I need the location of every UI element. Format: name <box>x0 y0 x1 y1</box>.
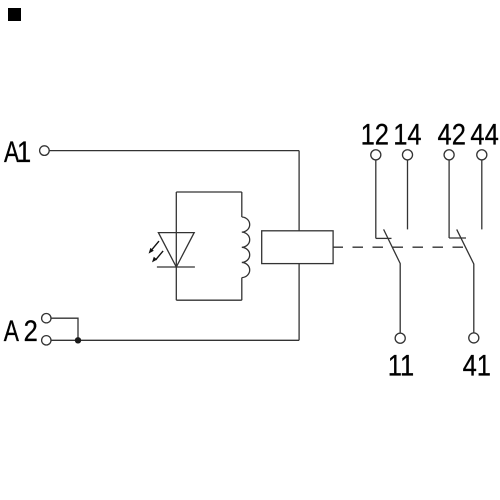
mechanical linkage dashed <box>333 246 464 248</box>
terminal 41 <box>469 333 479 343</box>
terminal A1 <box>40 146 50 156</box>
svg-text:11: 11 <box>388 348 414 381</box>
contact 12 foot <box>376 237 392 239</box>
terminal A2 lower <box>42 336 51 345</box>
svg-text:44: 44 <box>470 117 498 150</box>
wire right vertical lower <box>298 264 300 341</box>
wire A2 bridge <box>51 318 78 340</box>
wire A1 horizontal <box>49 150 299 152</box>
terminal 11 <box>395 333 405 343</box>
wire A2 horizontal <box>51 339 299 341</box>
terminal A2 upper <box>42 314 51 323</box>
wire contact 12 <box>375 160 377 239</box>
coil box left edge <box>175 192 177 300</box>
inductor L1 <box>242 217 250 278</box>
LED D1 triangle <box>158 233 194 267</box>
wire right vertical upper <box>298 151 300 231</box>
corner mark <box>8 8 21 21</box>
wire contact 14 <box>407 160 409 230</box>
terminal 44 <box>477 150 487 160</box>
terminal 42 <box>444 150 454 160</box>
coil box right edge lower <box>241 278 243 301</box>
coil box bottom edge <box>176 299 242 301</box>
svg-text:42: 42 <box>438 117 466 150</box>
terminal 14 <box>402 150 412 160</box>
wire contact 44 <box>481 160 483 230</box>
relay coil box K1 <box>262 231 333 264</box>
wire contact 42 <box>448 160 450 238</box>
svg-text:2: 2 <box>24 314 38 347</box>
svg-text:14: 14 <box>393 117 421 150</box>
contact blade CO2 <box>457 229 474 333</box>
junction dot A2 <box>75 337 81 343</box>
coil box right edge upper <box>241 192 243 217</box>
coil box top edge <box>176 191 242 193</box>
LED arrow 1 <box>149 241 159 254</box>
contact blade CO1 <box>384 229 401 333</box>
svg-text:41: 41 <box>463 348 491 381</box>
LED arrow 2 <box>152 251 163 263</box>
svg-text:A: A <box>4 314 19 348</box>
LED D1 cathode bar <box>157 266 195 268</box>
terminal 12 <box>371 150 381 160</box>
svg-text:1: 1 <box>17 135 31 168</box>
svg-text:12: 12 <box>361 117 389 150</box>
contact 42 foot <box>449 237 466 239</box>
